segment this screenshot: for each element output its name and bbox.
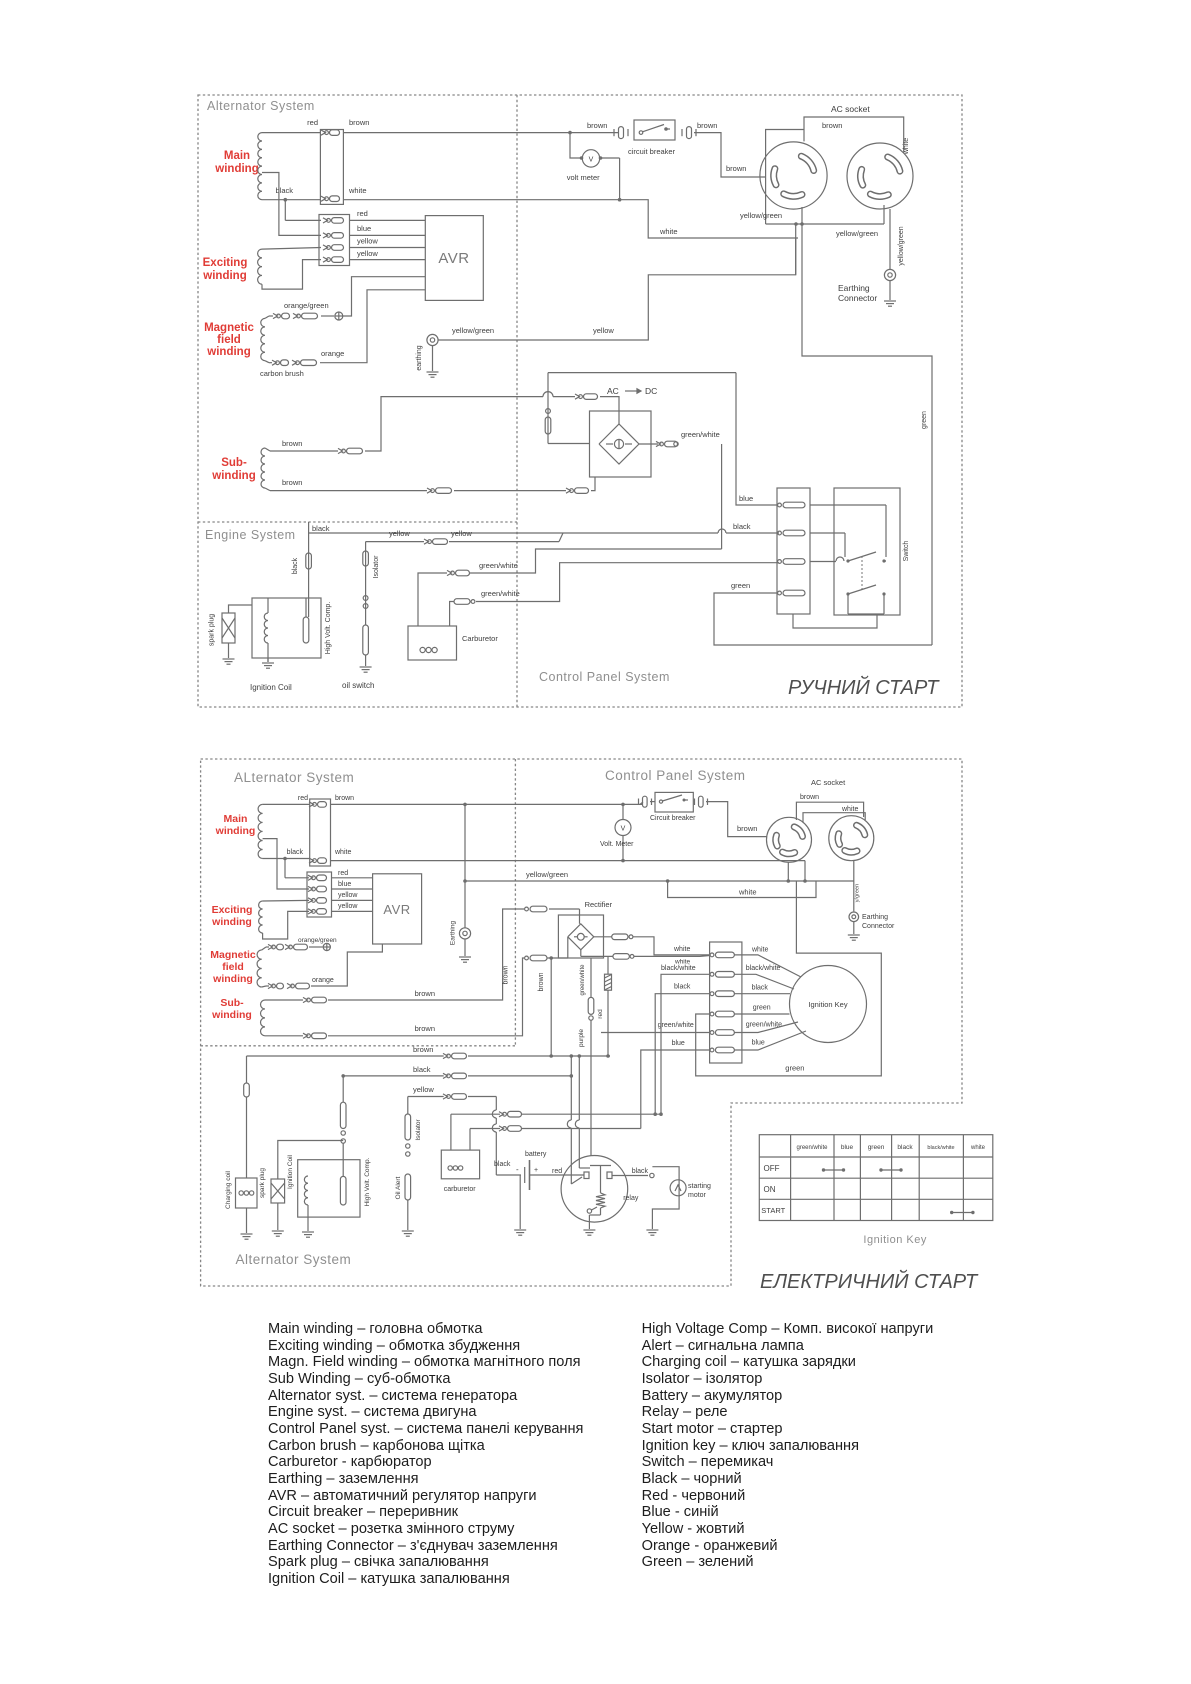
svg-text:yellow: yellow <box>413 1085 434 1094</box>
wire avr b row3 <box>332 899 373 901</box>
svg-text:Sub-: Sub- <box>220 997 244 1009</box>
label battery <box>525 1151 547 1158</box>
wire into rectifier bottom <box>591 477 595 491</box>
coil ignition coil (top) <box>264 613 268 643</box>
svg-text:winding: winding <box>212 973 253 985</box>
svg-text:Alternator System: Alternator System <box>236 1252 352 1267</box>
connector AVR row4 yellow <box>323 257 344 263</box>
label green/white (rect out) <box>681 430 720 439</box>
svg-text:yellow/green: yellow/green <box>898 226 905 265</box>
svg-text:red: red <box>597 1009 604 1019</box>
wire ignition coil ground <box>267 643 269 662</box>
connector col row4 green <box>710 1011 734 1017</box>
label Main winding <box>214 150 258 175</box>
wire red riser to AVR row1 <box>284 198 322 221</box>
wire rect out2 (b) <box>581 950 613 957</box>
label Sub-winding <box>211 457 255 482</box>
label brown (bracket b) <box>800 794 819 801</box>
svg-text:V: V <box>621 826 626 833</box>
wire black horizontal <box>309 529 779 533</box>
label Exciting winding (b) <box>211 904 252 928</box>
wire battery ground <box>519 1175 521 1229</box>
coil main winding (b) <box>258 804 263 858</box>
spark plug (top) <box>222 605 252 658</box>
earthing symbol (top) <box>427 334 438 371</box>
wire col row1 to key <box>734 955 801 977</box>
label black (bottom) <box>413 1065 431 1074</box>
label spark plug (b) <box>259 1168 266 1198</box>
svg-text:brown: brown <box>349 118 369 127</box>
label blue (AVR) <box>357 224 371 233</box>
connector brown bottom <box>443 1053 467 1059</box>
label black (b main) <box>287 849 304 856</box>
svg-text:brown: brown <box>282 439 302 448</box>
table row OFF <box>764 1164 780 1173</box>
svg-text:black: black <box>733 522 751 531</box>
wire main top lead (b) <box>263 803 310 805</box>
coil magnetic field winding (top) <box>261 318 265 360</box>
label green/white (left) <box>658 1022 694 1029</box>
svg-text:AVR: AVR <box>383 902 410 917</box>
svg-text:brown: brown <box>737 824 757 833</box>
svg-text:motor: motor <box>688 1192 707 1199</box>
svg-text:blue: blue <box>739 494 753 503</box>
connector motor <box>650 1173 654 1177</box>
svg-text:Switch: Switch <box>903 541 910 562</box>
svg-text:winding: winding <box>211 1009 252 1021</box>
label black (motor) <box>632 1168 649 1175</box>
connector green/white 2 <box>454 599 475 605</box>
wire col row5 to key <box>734 1022 798 1033</box>
connector rect in bottom (b) <box>525 955 547 961</box>
svg-text:High Volt. Comp.: High Volt. Comp. <box>325 602 332 655</box>
connector black bottom <box>443 1073 467 1079</box>
wire hv link <box>268 598 306 617</box>
connector rect ac in 2 <box>566 488 589 494</box>
starting motor <box>670 1180 686 1196</box>
svg-text:yellow/green: yellow/green <box>526 870 568 879</box>
wire green/white down <box>721 444 723 549</box>
svg-text:black: black <box>494 1161 511 1168</box>
circuit breaker box (b) <box>655 792 693 812</box>
label earthing <box>416 345 423 370</box>
svg-text:field: field <box>222 961 244 973</box>
wire carb 1 (b) <box>451 1114 500 1150</box>
wire brown bracket (b) <box>796 802 863 820</box>
svg-text:orange: orange <box>321 349 344 358</box>
svg-text:Ignition Key: Ignition Key <box>808 1000 847 1009</box>
label Charging coil <box>225 1170 232 1208</box>
op-box AVR (bottom) <box>373 874 422 944</box>
AC socket 1 (top) <box>760 142 827 209</box>
top diagram outer dashed border <box>198 95 962 707</box>
svg-text:black: black <box>752 985 769 992</box>
wire rect top in (b) <box>549 909 580 924</box>
wire yellow bottom cont <box>468 1096 496 1098</box>
ground (battery) <box>514 1230 526 1235</box>
label black (left) <box>674 984 691 991</box>
coil exciting winding (top) <box>258 249 262 284</box>
bottom alternator dashed divider <box>201 1045 516 1047</box>
ground (earthing top) <box>427 372 439 377</box>
top diagram vertical dashed divider <box>516 95 518 707</box>
wire col row4 to key <box>734 1013 789 1015</box>
wire yellow to black <box>449 533 563 542</box>
wire green/white 2 cont <box>476 563 779 602</box>
svg-text:winding: winding <box>215 825 256 837</box>
label Earthing Connector <box>838 283 877 303</box>
svg-text:High Volt. Comp.: High Volt. Comp. <box>364 1157 371 1206</box>
svg-text:Control Panel System: Control Panel System <box>539 670 670 684</box>
wire red riser (b) <box>283 857 309 878</box>
wire row6 feed <box>641 1050 710 1129</box>
svg-text:brown: brown <box>697 121 717 130</box>
svg-text:Earthing: Earthing <box>449 921 456 946</box>
connector block main (b) <box>310 799 331 866</box>
capsule ignition coil <box>303 617 309 643</box>
wire dc top bus <box>548 372 736 374</box>
svg-text:AC: AC <box>607 386 619 396</box>
svg-text:AVR: AVR <box>438 250 469 267</box>
wire white bracket (b) <box>803 813 865 822</box>
wire sub bottom lead <box>265 488 427 491</box>
carbon brush (b) <box>309 943 330 950</box>
ignition key table grid <box>759 1135 993 1221</box>
svg-text:Rectifier: Rectifier <box>585 900 613 909</box>
wire yellow/green vertical <box>795 224 797 275</box>
wire carb 2 (b) <box>470 1129 500 1151</box>
connector block AVR inputs <box>319 215 350 266</box>
wire brown bottom cont <box>468 1055 610 1057</box>
carburetor box (b) <box>441 1150 479 1179</box>
label red (main top) <box>307 118 318 127</box>
label brown (sub bottom) <box>282 478 302 487</box>
label black (battery) <box>494 1161 511 1168</box>
wire col row6 to key <box>734 1031 806 1050</box>
svg-text:blue: blue <box>752 1040 765 1047</box>
connector rect dc out <box>639 441 678 447</box>
table link OFF 2 <box>879 1168 902 1171</box>
svg-text:spark plug: spark plug <box>259 1168 266 1198</box>
wire main top lead <box>262 132 321 134</box>
label AC-DC <box>607 386 657 396</box>
wire green/white 1 <box>418 573 447 626</box>
connector AVR b row3 <box>308 898 327 904</box>
label white (b main) <box>334 849 351 856</box>
wire rect bottom in (b) <box>547 937 568 958</box>
connector black vertical <box>306 553 312 569</box>
wire magnetic bottom lead <box>265 361 272 363</box>
svg-text:ON: ON <box>764 1185 776 1194</box>
coil ignition coil (b) <box>304 1176 308 1205</box>
table row START <box>761 1206 785 1215</box>
junction brown node (b) <box>549 956 553 960</box>
label green (panel) <box>731 581 750 590</box>
svg-text:yellow: yellow <box>389 529 410 538</box>
svg-text:Isolator: Isolator <box>373 555 380 579</box>
svg-text:Volt. Meter: Volt. Meter <box>600 841 634 848</box>
connector orange/green (b) <box>268 944 308 950</box>
connector breaker in (b) <box>639 796 652 807</box>
wire main bottom lead (b) <box>263 858 310 860</box>
ground (earthing b) <box>459 957 471 962</box>
wire orange/green (b) <box>262 947 269 950</box>
connector AVR b row1 <box>308 875 327 881</box>
svg-text:blue: blue <box>841 1144 854 1151</box>
svg-text:brown: brown <box>335 795 354 802</box>
connector col row1 white <box>710 952 734 958</box>
junction voltmeter top <box>568 131 572 135</box>
spark plug (b) <box>271 1141 343 1231</box>
label green/white (right) <box>746 1022 782 1029</box>
wire battery to relay <box>530 1174 585 1176</box>
connector sub top (b) <box>303 997 327 1003</box>
svg-text:Exciting: Exciting <box>212 904 253 916</box>
connector breaker in <box>614 127 628 139</box>
coil magnetic (b) <box>257 950 262 987</box>
wire AVR row3 <box>350 247 426 249</box>
ignition coil box (b) <box>298 1160 360 1217</box>
wire sub bottom riser (b) <box>328 958 524 1036</box>
label white (wire) <box>659 227 678 236</box>
svg-text:black: black <box>312 524 330 533</box>
label circuit breaker <box>628 147 676 156</box>
label black/white (right) <box>746 965 781 972</box>
junction voltmeter bottom <box>618 198 622 202</box>
label orange/green (b) <box>298 937 337 944</box>
label white (bracket b) <box>841 806 858 813</box>
svg-text:green: green <box>921 411 928 429</box>
motor bracket <box>652 1167 679 1229</box>
table header black/white <box>927 1145 954 1151</box>
svg-text:black: black <box>674 984 691 991</box>
svg-text:orange: orange <box>312 977 334 984</box>
label Ignition Coil (b) <box>287 1154 294 1189</box>
label black (main bottom) <box>275 186 293 195</box>
ground (starting motor) <box>646 1230 658 1235</box>
svg-text:Alternator System: Alternator System <box>207 99 315 113</box>
svg-text:V: V <box>589 157 594 164</box>
connector col row3 black <box>710 991 734 997</box>
label green/white 2 <box>481 589 520 598</box>
svg-text:winding: winding <box>211 916 252 928</box>
svg-text:ALternator System: ALternator System <box>234 770 354 785</box>
AC socket 2 (b) <box>829 816 874 861</box>
svg-text:Ignition Key: Ignition Key <box>863 1234 926 1246</box>
svg-text:AC socket: AC socket <box>811 778 846 787</box>
wire orange to AVR (b) <box>311 944 382 986</box>
svg-text:brown: brown <box>415 989 435 998</box>
label yellow 2 <box>451 529 472 538</box>
svg-text:red: red <box>552 1168 562 1175</box>
ignition key circle <box>790 966 867 1043</box>
label brown (sub top) <box>282 439 302 448</box>
svg-text:Carburetor: Carburetor <box>462 634 498 643</box>
wire socket bracket inner <box>766 130 804 225</box>
svg-text:green: green <box>753 1005 771 1012</box>
AC socket 1 (b) <box>767 817 812 862</box>
circuit breaker box (top) <box>634 120 675 140</box>
connector block control panel <box>777 488 810 614</box>
wire into rectifier top <box>600 397 619 424</box>
svg-text:brown: brown <box>726 164 746 173</box>
table row ON <box>764 1185 776 1194</box>
charging coil <box>236 1178 258 1233</box>
svg-text:brown: brown <box>800 794 819 801</box>
wire black bottom bus <box>343 1075 444 1077</box>
svg-text:Charging coil: Charging coil <box>225 1170 232 1208</box>
switch internals <box>810 505 886 614</box>
label Magnetic field winding <box>204 322 254 358</box>
connector block AVR (b) <box>307 872 332 917</box>
wire brown junction drop <box>549 958 553 1058</box>
label white (out1) <box>673 946 690 953</box>
connector breaker out (b) <box>695 796 708 807</box>
svg-text:carbon brush: carbon brush <box>260 369 304 378</box>
svg-text:yellow: yellow <box>451 529 472 538</box>
svg-text:Ignition Coil: Ignition Coil <box>250 683 292 692</box>
ground (ignition coil b) <box>302 1232 314 1237</box>
svg-text:spark plug: spark plug <box>209 614 216 646</box>
label spark plug <box>209 614 216 646</box>
wire white lower (b) <box>668 881 816 898</box>
svg-text:Isolator: Isolator <box>415 1119 422 1141</box>
label black/white (left) <box>661 965 696 972</box>
wire sub top lead <box>265 448 338 451</box>
wire orange to AVR <box>320 290 425 363</box>
svg-text:Earthing: Earthing <box>838 283 870 293</box>
ground (charging coil) <box>241 1234 253 1239</box>
wire main mid tap <box>262 173 321 236</box>
label black (vertical) <box>292 557 299 574</box>
label volt meter <box>567 173 600 182</box>
connector main bottom (b) <box>309 858 327 864</box>
label brown (breaker in) <box>587 121 607 130</box>
label brown (b main) <box>335 795 354 802</box>
connector orange pair <box>272 360 317 366</box>
label white (bracket) <box>903 138 910 155</box>
connector rect in top (b) <box>525 906 547 912</box>
connector yellow <box>424 539 448 545</box>
volt meter (top) <box>570 133 620 200</box>
label green/white 1 <box>479 561 518 570</box>
table header white <box>970 1145 986 1151</box>
label white (right) <box>751 947 768 954</box>
svg-text:orange/green: orange/green <box>284 301 329 310</box>
relay circle <box>561 1156 628 1223</box>
AC socket 2 (top) <box>847 143 913 209</box>
svg-text:volt meter: volt meter <box>567 173 600 182</box>
wire black vertical (engine) <box>309 522 330 617</box>
connector main red/brown <box>321 130 340 136</box>
connector panel row3 green/white <box>778 559 805 565</box>
svg-text:orange/green: orange/green <box>298 937 337 944</box>
wire orange/green lead <box>265 316 273 318</box>
label yellow (AVR row4) <box>357 249 378 258</box>
svg-text:black: black <box>413 1065 431 1074</box>
connector panel row2 black <box>778 530 805 536</box>
connector col row6 blue <box>710 1047 734 1053</box>
svg-text:Main: Main <box>224 150 250 162</box>
label Sub-winding (b) <box>211 997 252 1021</box>
wire sub top riser (b) <box>328 909 524 1000</box>
label green/white (purple col) <box>580 964 586 996</box>
label white (main bottom) <box>348 186 367 195</box>
svg-text:Connector: Connector <box>862 923 895 930</box>
capsule ignition coil (b) <box>340 1176 346 1205</box>
label yellow (wire) <box>593 326 614 335</box>
svg-text:oil switch: oil switch <box>342 681 374 690</box>
wire purple column <box>588 958 594 1156</box>
label black (right) <box>752 985 769 992</box>
rectifier box (b) <box>558 915 603 958</box>
label orange (b) <box>312 977 334 984</box>
label brown (b sub bottom) <box>415 1024 435 1033</box>
label brown (b sub top) <box>415 989 435 998</box>
wire col row2 to key <box>734 974 794 989</box>
label relay <box>623 1195 639 1202</box>
svg-text:ЕЛЕКТРИЧНИЙ СТАРТ: ЕЛЕКТРИЧНИЙ СТАРТ <box>760 1270 979 1293</box>
label brown (socket in) <box>726 164 746 173</box>
svg-text:Magnetic: Magnetic <box>204 322 254 334</box>
top diagram engine-system dashed divider <box>198 521 517 523</box>
label Alternator System (bottom) <box>236 1252 352 1267</box>
svg-text:yellow: yellow <box>593 326 614 335</box>
svg-text:white: white <box>751 947 768 954</box>
wire exciting top (b) <box>263 899 309 902</box>
wire AVR row2 <box>350 234 426 236</box>
label Control Panel System <box>539 670 670 684</box>
oil switch column <box>363 542 369 666</box>
svg-text:white: white <box>659 227 678 236</box>
svg-text:yellow/green: yellow/green <box>740 211 782 220</box>
label yellow (b avr4) <box>338 903 358 910</box>
label yellow/green (socket1) <box>740 211 782 220</box>
label brown (drop) <box>538 972 545 991</box>
wire sub top to rectifier <box>365 392 575 451</box>
wire green riser <box>802 224 932 645</box>
table header green/white <box>796 1145 828 1151</box>
label Alternator System (top) <box>207 99 315 113</box>
connector AVR b row4 <box>308 909 327 915</box>
connector AVR row2 blue <box>323 233 344 239</box>
earthing symbol (b) <box>459 928 470 956</box>
connector panel row4 green <box>778 590 805 596</box>
wire yellow bottom bus <box>408 1096 444 1098</box>
svg-text:earthing: earthing <box>416 345 423 370</box>
svg-text:starting: starting <box>688 1183 711 1190</box>
high volt column (b) <box>340 1074 346 1176</box>
connector sub top <box>338 448 363 454</box>
label Magnetic field winding (b) <box>210 949 256 985</box>
ground (oil switch) <box>360 667 372 672</box>
wire AVR row1 <box>350 219 426 221</box>
connector AVR b row2 <box>308 886 327 892</box>
label Engine System <box>205 528 296 542</box>
wire sub bottom (b) <box>265 1035 303 1037</box>
connector sub bottom (b) <box>303 1033 327 1039</box>
wire AVR row4 <box>350 259 426 261</box>
wire earthing drop (b) <box>463 804 467 927</box>
wire relay feed 1 <box>567 1054 582 1184</box>
wire brown bus (b) <box>331 803 644 807</box>
label AC socket (b) <box>811 778 846 787</box>
wire socket2 earthing (b) <box>853 860 855 911</box>
connector main top (b) <box>309 802 327 808</box>
connector column (b) <box>710 942 742 1063</box>
svg-text:relay: relay <box>623 1195 639 1202</box>
wire brown bottom bus <box>247 1055 444 1057</box>
